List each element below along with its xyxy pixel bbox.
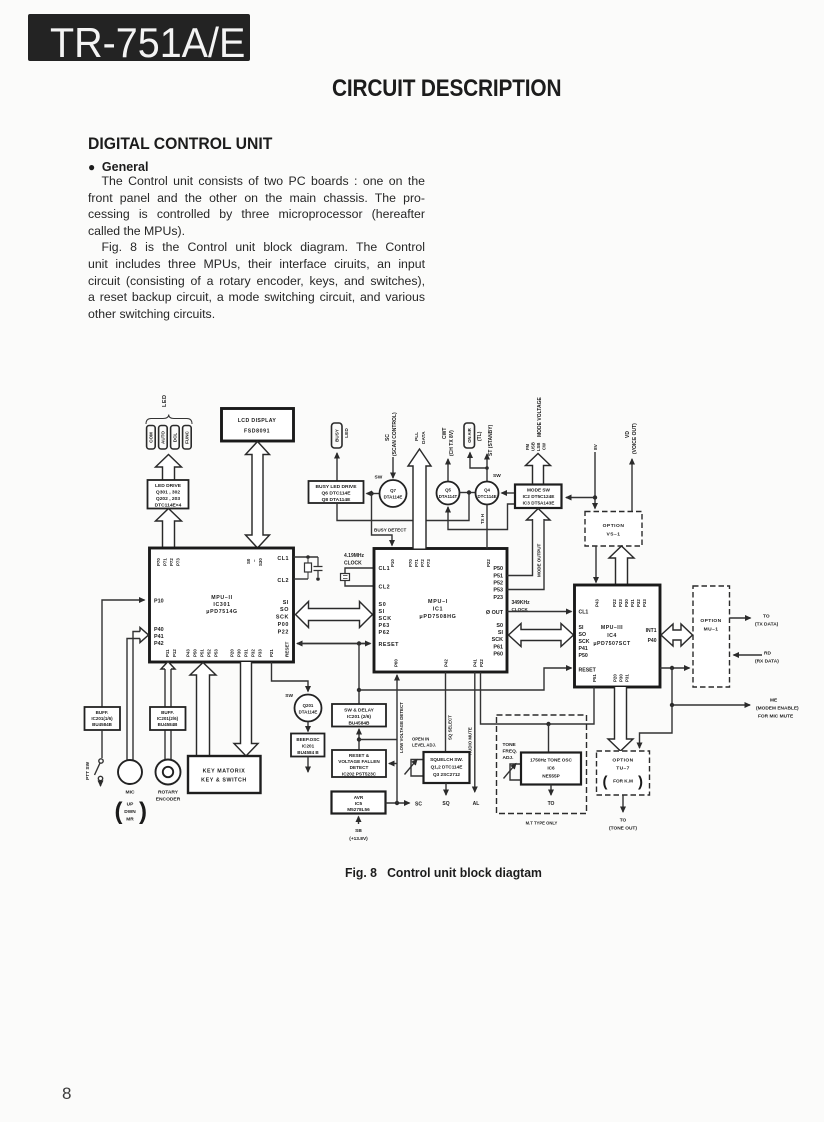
wire MPU-I P41 audio mute to AL bbox=[474, 672, 476, 792]
transistor Q4 DTC114E bbox=[476, 482, 499, 505]
pin CL1 CL2 left MPU-I bbox=[379, 566, 391, 591]
svg-text:BUFF.: BUFF. bbox=[161, 710, 174, 715]
label SC (SCAN CONTROL) bbox=[385, 412, 398, 456]
wire MPU-I P22 to MPU-III P51 bbox=[481, 672, 595, 724]
svg-text:P31: P31 bbox=[244, 649, 249, 657]
svg-text:1750Hz TONE OSC: 1750Hz TONE OSC bbox=[530, 758, 572, 763]
label BUSY boxed bbox=[332, 423, 343, 448]
label (UP DWN MR) bbox=[115, 798, 148, 825]
wire ME branch to TU-7 bbox=[640, 705, 673, 748]
potentiometer tone freq bbox=[504, 764, 522, 781]
svg-text:M5278L56: M5278L56 bbox=[347, 807, 370, 812]
label M.T TYPE ONLY bbox=[526, 821, 558, 826]
block MODE SW IC2 IC3 bbox=[515, 485, 562, 509]
wire MPU-III to MU-1 enable bbox=[660, 667, 690, 669]
svg-text:LCD DISPLAY: LCD DISPLAY bbox=[238, 418, 277, 424]
wire junction to low voltage line bbox=[359, 739, 397, 741]
pin P40 P41 P42 MPU-II bbox=[154, 627, 164, 647]
pin P51 bottom MPU-III bbox=[592, 674, 597, 682]
svg-text:SW: SW bbox=[285, 693, 293, 699]
svg-text:IC201(1/6): IC201(1/6) bbox=[91, 716, 113, 721]
svg-text:SC: SC bbox=[385, 434, 391, 441]
pin P70-P73 top MPU-II bbox=[156, 558, 181, 566]
svg-text:(TONE OUT): (TONE OUT) bbox=[609, 826, 637, 832]
label CWT (CH TX 8V) bbox=[442, 428, 455, 456]
svg-text:IC301: IC301 bbox=[213, 602, 230, 608]
svg-text:P31: P31 bbox=[630, 599, 635, 607]
svg-text:Q5: Q5 bbox=[445, 488, 451, 493]
wire 8V to MODE SW bbox=[566, 497, 595, 499]
section title bbox=[88, 134, 272, 154]
pin S0 S30 top MPU-II bbox=[246, 558, 263, 566]
wire MPU-II P21 to Q201 bbox=[272, 662, 309, 692]
svg-text:IC202 PST523C: IC202 PST523C bbox=[342, 772, 377, 777]
svg-text:P22: P22 bbox=[479, 659, 484, 667]
node junction ME bbox=[670, 703, 674, 707]
wire MODE SW to Q5 bbox=[448, 504, 515, 530]
wire PTT to MPU-II P10 bbox=[102, 600, 145, 707]
svg-text:P00: P00 bbox=[394, 659, 399, 667]
wire 8V down to VS-1 bbox=[594, 452, 596, 509]
wire Q7 to BUSY LED DRIVE bbox=[367, 493, 380, 495]
svg-text:P61: P61 bbox=[493, 645, 503, 651]
svg-text:RESET: RESET bbox=[379, 642, 400, 648]
block OPTION VS-1 dashed bbox=[585, 512, 642, 547]
svg-text:P42: P42 bbox=[154, 641, 164, 647]
hollow double arrow MPU-I to MPU-III serial bbox=[509, 624, 574, 647]
svg-text:P40: P40 bbox=[648, 638, 657, 644]
wire VS-1 to MPU-III P43 bbox=[595, 546, 597, 583]
crystal X1 MPU-I bbox=[341, 568, 375, 586]
wire SC line into RESET&VFD bbox=[389, 763, 397, 765]
svg-text:MODE SW: MODE SW bbox=[527, 488, 550, 493]
node junction SC bbox=[395, 801, 399, 805]
svg-text:SB: SB bbox=[355, 828, 362, 834]
label VD (VOICE OUT) bbox=[625, 423, 638, 454]
capacitor C301 bbox=[314, 557, 323, 581]
svg-text:): ) bbox=[139, 798, 147, 825]
node LED label bbox=[162, 395, 168, 408]
svg-text:LOW VOLTAGE DETECT: LOW VOLTAGE DETECT bbox=[399, 702, 404, 753]
svg-text:CL2: CL2 bbox=[277, 578, 289, 584]
svg-text:CL2: CL2 bbox=[379, 585, 391, 591]
svg-text:P73: P73 bbox=[426, 559, 431, 567]
svg-text:DETECT: DETECT bbox=[350, 765, 369, 770]
svg-text:P12: P12 bbox=[172, 649, 177, 657]
svg-text:SQUELCH SW.: SQUELCH SW. bbox=[430, 757, 463, 762]
label RD (RX DATA) bbox=[755, 651, 779, 665]
svg-text:FUNC: FUNC bbox=[184, 430, 189, 443]
pin RESET bottom-right MPU-II bbox=[285, 641, 290, 657]
label SQ SELECT bbox=[448, 715, 453, 740]
svg-text:P41: P41 bbox=[473, 659, 478, 667]
svg-text:P41: P41 bbox=[154, 634, 164, 640]
op block MPU-III IC4 uPD7507SCT bbox=[575, 585, 661, 687]
hollow arrow MPU-III to TU-7 bbox=[608, 687, 633, 751]
svg-text:P11: P11 bbox=[165, 649, 170, 657]
svg-text:IC201: IC201 bbox=[302, 744, 315, 749]
svg-text:P22: P22 bbox=[486, 559, 491, 567]
oscillator 1750Hz TONE OSC IC6 NE555P bbox=[521, 753, 581, 785]
svg-text:P52: P52 bbox=[493, 581, 503, 587]
label ST (STANBY) bbox=[488, 424, 494, 456]
svg-text:AUDIO MUTE: AUDIO MUTE bbox=[468, 727, 473, 755]
body text bbox=[88, 174, 425, 323]
wire RESET&VFD to SW&DELAY bbox=[358, 729, 360, 750]
svg-text:MIC: MIC bbox=[126, 790, 135, 796]
pin P21 bottom MPU-II bbox=[269, 649, 274, 657]
wire CL1 MPU-II to resonator bbox=[294, 556, 319, 558]
wire SQUELCH to SQ bbox=[445, 783, 447, 795]
wire low voltage detect to MPU-I P00 bbox=[396, 675, 398, 803]
svg-text:Q202 , 203: Q202 , 203 bbox=[156, 496, 180, 502]
node junction busy detect bbox=[369, 491, 373, 495]
label 8V bbox=[593, 443, 599, 450]
label TX H bbox=[480, 514, 485, 524]
pin INT1 P40 right MPU-III bbox=[646, 628, 657, 644]
svg-text:P73: P73 bbox=[176, 558, 181, 566]
svg-text:CLOCK: CLOCK bbox=[344, 561, 362, 567]
svg-text:): ) bbox=[638, 774, 643, 791]
svg-text:Q301 , 302: Q301 , 302 bbox=[156, 490, 180, 496]
svg-text:P41: P41 bbox=[579, 646, 588, 652]
block BEEP OSC IC201 bbox=[291, 734, 325, 757]
svg-text:MODE OUTPUT: MODE OUTPUT bbox=[537, 543, 542, 577]
hollow arrowhead encoder bus bbox=[161, 662, 175, 670]
label AL bbox=[473, 801, 480, 807]
hollow arrow PLL DATA from MPU-I bbox=[408, 449, 431, 549]
svg-text:M.T TYPE ONLY: M.T TYPE ONLY bbox=[526, 821, 558, 826]
svg-text:P20: P20 bbox=[230, 649, 235, 657]
svg-text:TU–7: TU–7 bbox=[616, 766, 630, 772]
svg-text:VD: VD bbox=[625, 431, 631, 438]
svg-text:P50: P50 bbox=[579, 653, 588, 659]
pin P22 top MPU-I bbox=[486, 559, 491, 567]
hollow arrow LED DRIVE to LEDs bbox=[156, 455, 182, 481]
node junction 8V mode sw bbox=[593, 495, 597, 499]
heading CIRCUIT DESCRIPTION bbox=[332, 75, 536, 103]
hollow arrow MODE SW to mode voltage bbox=[526, 454, 551, 485]
label SC bbox=[415, 802, 422, 808]
svg-text:COM: COM bbox=[148, 432, 153, 443]
svg-text:P51: P51 bbox=[200, 649, 205, 657]
wire Q5 up to CWT bbox=[447, 459, 449, 482]
label LOW VOLTAGE DETECT bbox=[399, 702, 404, 753]
svg-text:P40: P40 bbox=[154, 627, 164, 633]
svg-text:SI: SI bbox=[498, 630, 504, 636]
svg-text:TO: TO bbox=[620, 818, 627, 824]
svg-text:P32: P32 bbox=[636, 599, 641, 607]
label SW at Q201 bbox=[285, 693, 293, 699]
label SW at Q4 bbox=[493, 473, 501, 479]
label MODE VOLTAGE bbox=[537, 397, 543, 437]
page number bbox=[62, 1084, 71, 1104]
figure caption bbox=[345, 865, 542, 880]
svg-text:LED: LED bbox=[162, 395, 168, 408]
svg-text:P32: P32 bbox=[251, 649, 256, 657]
svg-text:(: ( bbox=[115, 798, 123, 825]
svg-text:CW: CW bbox=[542, 443, 547, 450]
svg-text:TO: TO bbox=[548, 801, 555, 807]
svg-text:S0: S0 bbox=[496, 623, 503, 629]
svg-text:(MODEM ENABLE): (MODEM ENABLE) bbox=[756, 706, 799, 712]
block OPTION MU-1 dashed bbox=[693, 586, 730, 687]
svg-text:ENCODER: ENCODER bbox=[156, 797, 181, 803]
svg-text:DTC114E: DTC114E bbox=[477, 494, 496, 499]
svg-text:S0: S0 bbox=[379, 602, 387, 608]
pin SI SO SCK P00 P22 right MPU-II bbox=[276, 600, 289, 636]
svg-text:BUSY: BUSY bbox=[335, 429, 340, 442]
label TO (TONE OUT) bbox=[609, 818, 637, 832]
wire RESET net between MPU-II and MPU-I bbox=[297, 643, 371, 645]
svg-text:CWT: CWT bbox=[442, 428, 448, 439]
label MODE OUTPUT bbox=[537, 543, 542, 577]
svg-text:P10: P10 bbox=[390, 559, 395, 567]
svg-text:P71: P71 bbox=[414, 559, 419, 567]
svg-text:SCK: SCK bbox=[492, 637, 503, 643]
svg-text:DTC114E×4: DTC114E×4 bbox=[155, 503, 182, 509]
svg-text:~: ~ bbox=[252, 559, 257, 562]
svg-text:SW: SW bbox=[375, 475, 383, 481]
svg-text:P30: P30 bbox=[237, 649, 242, 657]
svg-text:(RX DATA): (RX DATA) bbox=[755, 659, 779, 665]
brace over LED indicators bbox=[146, 415, 192, 425]
svg-text:TO: TO bbox=[763, 614, 770, 620]
svg-text:IC4: IC4 bbox=[607, 633, 617, 639]
svg-text:SO: SO bbox=[579, 632, 587, 638]
svg-text:P53: P53 bbox=[214, 649, 219, 657]
svg-text:(VOICE OUT): (VOICE OUT) bbox=[632, 423, 638, 454]
svg-text:RESET &: RESET & bbox=[349, 753, 370, 758]
svg-text:SW: SW bbox=[493, 473, 501, 479]
svg-text:MPU–I: MPU–I bbox=[428, 599, 448, 605]
svg-text:BU4584B: BU4584B bbox=[158, 722, 179, 727]
wire Q4 up to ON AIR and ST bbox=[470, 453, 487, 482]
svg-text:SCK: SCK bbox=[276, 615, 289, 621]
pin P43 top MPU-III bbox=[595, 599, 600, 607]
svg-text:8V: 8V bbox=[593, 443, 599, 450]
crystal X301 bbox=[305, 557, 312, 579]
wire SB supply into AVR bbox=[358, 817, 360, 825]
svg-text:BU4584B: BU4584B bbox=[348, 721, 370, 727]
svg-text:USB: USB bbox=[531, 442, 536, 451]
svg-text:KEY & SWITCH: KEY & SWITCH bbox=[201, 778, 247, 784]
svg-text:P30: P30 bbox=[624, 599, 629, 607]
svg-text:Ø OUT: Ø OUT bbox=[486, 610, 504, 616]
svg-text:Q8 DTA114E: Q8 DTA114E bbox=[322, 497, 351, 503]
svg-text:P62: P62 bbox=[379, 630, 390, 636]
svg-text:SCK: SCK bbox=[379, 616, 392, 622]
svg-text:FOR K.M: FOR K.M bbox=[613, 779, 633, 784]
svg-text:P63: P63 bbox=[379, 623, 390, 629]
svg-text:IC3 DT5A143E: IC3 DT5A143E bbox=[523, 501, 555, 506]
wire MPU-I P51 to mode output arrow left bbox=[507, 519, 533, 576]
pin RESET left MPU-I bbox=[379, 642, 400, 648]
svg-text:P72: P72 bbox=[169, 558, 174, 566]
hollow double arrow LCD to MPU-II bbox=[246, 442, 270, 549]
wire MIC to MPU-II P40-P42 bbox=[127, 632, 140, 761]
node junction Q4 top bbox=[485, 466, 489, 470]
transistor Q5 DTA114T bbox=[437, 482, 460, 505]
block AVR IC5 bbox=[332, 792, 386, 814]
svg-text:DWN: DWN bbox=[124, 809, 136, 815]
label TO (TX DATA) bbox=[755, 614, 779, 628]
svg-text:FOR MIC MUTE: FOR MIC MUTE bbox=[758, 714, 794, 720]
block SW & DELAY bbox=[332, 704, 386, 727]
svg-text:IC5: IC5 bbox=[355, 801, 363, 806]
node junction Q5-Q4 bbox=[467, 490, 471, 494]
svg-text:CLOCK: CLOCK bbox=[512, 607, 529, 612]
svg-text:DTA114E: DTA114E bbox=[299, 710, 318, 715]
wire VS-1 to VD bbox=[631, 459, 633, 512]
block KEY MATRIX KEY&SWITCH bbox=[188, 756, 261, 793]
svg-text:Q7: Q7 bbox=[390, 488, 396, 493]
block BUFF IC201(2/6) bbox=[150, 707, 186, 730]
svg-text:SCK: SCK bbox=[579, 639, 590, 645]
svg-text:FSD8091: FSD8091 bbox=[244, 429, 270, 435]
node junction low voltage bbox=[357, 737, 361, 741]
pin SI SO SCK P41 P50 left MPU-III bbox=[579, 625, 590, 659]
svg-text:CL1: CL1 bbox=[277, 556, 289, 562]
svg-text:ADJ.: ADJ. bbox=[503, 755, 514, 761]
svg-text:NE555P: NE555P bbox=[542, 774, 559, 779]
pin CL2 MPU-II bbox=[277, 578, 289, 584]
svg-text:P50: P50 bbox=[493, 566, 503, 572]
svg-text:IC6: IC6 bbox=[547, 766, 555, 771]
wire MPU-I P53 to mode output arrow right bbox=[507, 519, 544, 590]
svg-text:SI: SI bbox=[283, 600, 289, 606]
svg-text:Q1,2 DTC114E: Q1,2 DTC114E bbox=[431, 765, 463, 770]
svg-text:P22: P22 bbox=[612, 599, 617, 607]
pin P10 MPU-II bbox=[154, 599, 164, 605]
svg-text:LED: LED bbox=[344, 428, 350, 438]
pin P10 top MPU-I bbox=[390, 559, 395, 567]
node junction tone feed bbox=[546, 722, 550, 726]
svg-text:KEY MATORIX: KEY MATORIX bbox=[203, 769, 246, 775]
pin S0 SI SCK P61 P60 right MPU-I bbox=[492, 623, 504, 658]
svg-text:TONE: TONE bbox=[503, 742, 517, 748]
svg-text:SQ SELECT: SQ SELECT bbox=[448, 715, 453, 740]
wire tone osc out TO bbox=[550, 785, 552, 796]
svg-text:FREQ.: FREQ. bbox=[503, 749, 518, 755]
svg-text:P30: P30 bbox=[619, 674, 624, 682]
svg-text:SW & DELAY: SW & DELAY bbox=[344, 708, 374, 714]
wire Q4 to MPU-I P22 bbox=[486, 505, 488, 549]
wire CL2 MPU-II to resonator bbox=[294, 578, 309, 580]
node junction RESET to MPU-III bbox=[357, 688, 361, 692]
label 349KHz CLOCK bbox=[512, 600, 531, 612]
svg-text:P50: P50 bbox=[193, 649, 198, 657]
svg-text:INT1: INT1 bbox=[646, 628, 657, 634]
block RESET & VOLTAGE FALLEN DETECT bbox=[332, 750, 386, 777]
svg-text:Q6 DTC114E: Q6 DTC114E bbox=[321, 491, 351, 497]
label TONE FREQ ADJ bbox=[503, 742, 518, 761]
svg-text:CL1: CL1 bbox=[579, 610, 589, 616]
svg-text:VOLTAGE FALLEN: VOLTAGE FALLEN bbox=[338, 759, 380, 764]
wire BUSY LED DRIVE to BUSY lamp bbox=[336, 453, 338, 481]
svg-text:P31: P31 bbox=[625, 674, 630, 682]
svg-text:PLL: PLL bbox=[414, 432, 420, 441]
svg-text:BUSY DETECT: BUSY DETECT bbox=[374, 528, 407, 533]
pin RESET left MPU-III bbox=[579, 668, 597, 674]
svg-text:P53: P53 bbox=[493, 588, 503, 594]
label LED rotated bbox=[344, 428, 350, 438]
svg-text:P23: P23 bbox=[618, 599, 623, 607]
svg-text:SI: SI bbox=[579, 625, 584, 631]
wire RESET down to SW&DELAY bbox=[358, 644, 360, 705]
svg-text:μPD7508HG: μPD7508HG bbox=[419, 614, 456, 620]
wire ROTARY ENCODER to MPU-II P11 P12 bbox=[165, 668, 171, 760]
block diagram bbox=[0, 388, 824, 860]
svg-text:Q3 2SC2712: Q3 2SC2712 bbox=[433, 772, 460, 777]
label PLL DATA bbox=[414, 431, 427, 444]
svg-text:ST (STANBY): ST (STANBY) bbox=[488, 424, 494, 456]
svg-text:BU4584 B: BU4584 B bbox=[297, 750, 319, 755]
label FM USB LSB CW bbox=[525, 442, 547, 451]
svg-text:SC: SC bbox=[415, 802, 422, 808]
svg-text:OPEN IN: OPEN IN bbox=[412, 737, 429, 742]
svg-text:DATA: DATA bbox=[421, 431, 427, 444]
wire ME modem enable bbox=[672, 668, 750, 705]
LED indicator FUNC bbox=[183, 426, 192, 450]
pin P11 P12 bottom MPU-II bbox=[165, 649, 177, 657]
svg-text:RESET: RESET bbox=[285, 641, 290, 657]
svg-text:DTA114E: DTA114E bbox=[384, 495, 403, 500]
svg-text:(SCAN CONTROL): (SCAN CONTROL) bbox=[392, 412, 398, 456]
svg-text:P70: P70 bbox=[408, 559, 413, 567]
svg-text:P43: P43 bbox=[595, 599, 600, 607]
svg-text:ROTARY: ROTARY bbox=[158, 790, 179, 796]
label 4.19MHz CLOCK bbox=[344, 553, 365, 567]
LED indicator AUTO bbox=[159, 426, 168, 450]
hollow arrow MPU-II to LED DRIVE bbox=[156, 509, 182, 549]
pin CL1 MPU-II bbox=[277, 556, 289, 562]
svg-text:PTT SW: PTT SW bbox=[85, 761, 91, 780]
hollow double arrow MPU-III to MU-1 bbox=[661, 624, 693, 646]
svg-text:TX H: TX H bbox=[480, 514, 485, 524]
svg-text:IC2 DT5C124E: IC2 DT5C124E bbox=[523, 494, 555, 499]
svg-text:P22: P22 bbox=[278, 630, 289, 636]
svg-text:P72: P72 bbox=[420, 559, 425, 567]
label OPEN IN LEVEL ADJ bbox=[412, 737, 436, 748]
wire Q201 to BEEP OSC bbox=[307, 722, 309, 732]
svg-text:μPD7514G: μPD7514G bbox=[206, 609, 238, 615]
block BUFF IC201(1/6) bbox=[85, 707, 121, 730]
hollow arrow MPU-III to VS-1 bbox=[609, 546, 634, 585]
svg-text:MPU–II: MPU–II bbox=[211, 595, 233, 601]
node junction RESET branch bbox=[357, 641, 361, 645]
wire AVR to SC bbox=[386, 802, 410, 804]
svg-text:P42: P42 bbox=[444, 659, 449, 667]
pin P50 P51 P52 P53 P23 right MPU-I bbox=[493, 566, 503, 601]
svg-text:UP: UP bbox=[127, 802, 134, 808]
svg-text:DTA114T: DTA114T bbox=[439, 494, 458, 499]
label TO bbox=[548, 801, 555, 807]
logo TR-751A/E bbox=[28, 14, 250, 61]
block tone dashed enclosure bbox=[497, 715, 587, 814]
svg-text:(+13.8V): (+13.8V) bbox=[349, 836, 368, 842]
svg-text:RESET: RESET bbox=[579, 668, 597, 674]
wire SC to Q7 bbox=[392, 457, 394, 478]
svg-text:S30: S30 bbox=[258, 558, 263, 566]
svg-text:BUSY LED DRIVE: BUSY LED DRIVE bbox=[316, 484, 358, 490]
label AUDIO MUTE bbox=[468, 727, 473, 755]
svg-text:(TL): (TL) bbox=[477, 431, 483, 441]
label SB (+13.8V) bbox=[349, 828, 368, 842]
svg-text:IC201(2/6): IC201(2/6) bbox=[157, 716, 179, 721]
svg-text:P10: P10 bbox=[154, 599, 164, 605]
svg-text:IC1: IC1 bbox=[433, 607, 444, 613]
